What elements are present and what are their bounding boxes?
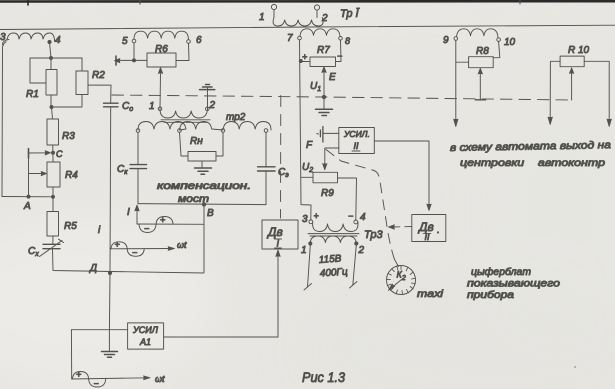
amplifier output wire [164, 251, 278, 338]
node dot on dashed line [322, 95, 325, 98]
sine1 negative half [139, 224, 156, 233]
wire pin4 down to node [50, 42, 52, 58]
svg-text:Дв: Дв [266, 225, 283, 239]
svg-text:3: 3 [302, 214, 308, 225]
R8 wiper wire [479, 72, 481, 100]
arrowhead down into R9 [323, 164, 327, 170]
top border line [0, 0, 615, 3]
Tp2 secondary tap circle [221, 129, 225, 133]
ground symbol inverted above Tp2 pin2 [200, 85, 215, 90]
R10 wiper wire [571, 72, 573, 101]
wire R5 to Cx [52, 236, 54, 244]
junction dot R7 plus [299, 60, 302, 63]
svg-text:C: C [56, 149, 63, 159]
svg-text:мост: мост [178, 194, 209, 205]
wire left bridge arm lower [137, 169, 139, 204]
amplifier box USIL A1 [128, 323, 164, 349]
svg-text:−: − [348, 211, 353, 221]
sine1 axis [137, 223, 204, 225]
capacitor Ce plates [258, 167, 276, 171]
wire to R2 top [81, 58, 83, 71]
transformer Tp2 secondary coil [138, 122, 271, 131]
dashed link DV II with arrow [392, 226, 412, 229]
wire from box to R9 wiper [325, 148, 339, 169]
meter Kd circle [387, 266, 416, 295]
svg-text:УСИЛ.: УСИЛ. [343, 129, 370, 139]
bar under II [423, 233, 431, 235]
wire tap vertical [28, 153, 30, 197]
transformer Tp2 primary coil [160, 109, 208, 118]
winding 9-10 terminal circle 10 [497, 38, 501, 42]
Tp2 core lines [161, 120, 210, 123]
dashed mechanical link diagonal [326, 150, 395, 260]
transformer Tp3 upper coil [313, 222, 358, 232]
potentiometer R9 [313, 172, 338, 183]
arrowhead R8 wiper up [478, 68, 482, 74]
svg-text:maxi: maxi [417, 289, 444, 300]
svg-text:А: А [23, 201, 31, 212]
ground U1 [316, 109, 333, 115]
transformer Tp3 lower coil [310, 236, 356, 244]
capacitor Ck plates [130, 165, 147, 169]
svg-text:компенсацион.: компенсацион. [157, 181, 251, 192]
wire R9 right down to pin 4 [338, 178, 357, 220]
winding 7-8 terminal circle 8 [339, 37, 343, 41]
potentiometer R6 [147, 53, 176, 67]
solid tail into meter [395, 260, 399, 267]
wire R4 bottom through A to R5 [52, 187, 54, 212]
Tp3 terminal circle 4 [354, 220, 358, 224]
svg-text:А1: А1 [139, 337, 151, 347]
svg-text:4: 4 [55, 35, 61, 46]
svg-text:I: I [127, 207, 130, 218]
motor box DV I [262, 220, 298, 249]
svg-text:Е: Е [329, 72, 336, 83]
Tp3 lower terminal dot 2 [355, 242, 358, 245]
wire B down [203, 204, 205, 272]
svg-text:R5: R5 [64, 221, 77, 232]
ground at amplifier [102, 352, 118, 358]
wire tap to RH right [216, 132, 223, 156]
wire C tap with arrow [29, 152, 50, 154]
wire pin5 down [133, 43, 135, 61]
svg-text:10: 10 [504, 37, 516, 48]
wire bottom join [51, 95, 82, 108]
potentiometer R7 [310, 57, 336, 67]
wire down to R3 [52, 107, 53, 119]
wire tap to RH left [180, 132, 189, 156]
capacitor F tick [317, 133, 318, 136]
amplifier box USIL II [339, 128, 375, 154]
tick on border [139, 0, 141, 4]
svg-text:R1: R1 [26, 89, 39, 100]
needle arrowhead [388, 284, 395, 291]
svg-text:В: В [207, 208, 214, 219]
main dashed line [112, 95, 572, 100]
svg-text:+: + [160, 215, 165, 225]
sine1 positive half [156, 217, 173, 225]
wire left down to sine3 [70, 330, 72, 379]
sine2 negative half [127, 249, 144, 257]
svg-text:R3: R3 [62, 131, 75, 142]
svg-text:7: 7 [287, 33, 293, 44]
arrowhead R7 wiper up [322, 67, 326, 73]
svg-text:1: 1 [301, 245, 307, 256]
svg-text:6: 6 [196, 35, 202, 46]
svg-text:R4: R4 [65, 170, 78, 181]
wire left bridge arm upper [137, 132, 139, 164]
svg-text:2: 2 [209, 100, 216, 111]
svg-text:R 10: R 10 [568, 45, 590, 56]
underline II [352, 150, 360, 152]
amplifier input wire [71, 329, 127, 331]
transformer Tp1 primary terminal 2 [314, 5, 319, 10]
svg-text:−: − [144, 224, 149, 234]
svg-text:показывающего: показывающего [467, 279, 561, 290]
node A dot right [52, 195, 55, 198]
sine2 positive half [111, 242, 127, 249]
svg-text:R9: R9 [321, 188, 334, 199]
ground stem U1 [323, 97, 325, 109]
sine3 arrowhead [144, 376, 151, 380]
svg-text:УСИЛ: УСИЛ [132, 325, 159, 335]
R8 wiper bottom tick [475, 99, 485, 101]
winding 3-4 terminal dot [48, 40, 51, 43]
svg-text:−: − [132, 248, 137, 258]
svg-text:+: + [76, 370, 81, 380]
wire node horizontal [30, 57, 82, 59]
sine2 arrowhead [168, 247, 175, 251]
arrowhead down R10 left [548, 117, 552, 125]
wire R1 bottom [50, 95, 52, 107]
resistor R3 [47, 119, 59, 145]
bridge bottom wire [138, 204, 266, 205]
svg-text:Rн: Rн [190, 136, 203, 147]
svg-text:цыферблат: цыферблат [471, 266, 531, 278]
main vertical from pin 7 [300, 40, 312, 220]
transformer Tp1 primary coil [273, 18, 323, 27]
svg-text:R8: R8 [476, 46, 489, 57]
main horizontal bus line [0, 25, 615, 29]
terminal bar with arrow [115, 56, 117, 65]
arrowhead to C [45, 151, 51, 155]
arrowhead I up [135, 205, 139, 211]
node dot D [108, 271, 111, 274]
arrowhead down R10 right [607, 119, 611, 127]
svg-text:прибора: прибора [467, 289, 515, 301]
svg-text:R7: R7 [317, 45, 330, 56]
svg-text:F: F [306, 140, 313, 151]
wire R2 tap to Co [88, 85, 111, 95]
capacitor Cx variable arrow [40, 239, 64, 256]
Tp2 secondary tap circle [178, 129, 182, 133]
wire R8 left stub [456, 61, 469, 63]
svg-text:9: 9 [443, 35, 449, 46]
paper speck [574, 366, 576, 368]
winding 3-4 coil [7, 33, 55, 42]
wire R9 left [301, 176, 313, 178]
winding 3-4 terminal curl [2, 40, 9, 46]
node A dot left [27, 195, 30, 198]
wire R6 left to terminal bar [117, 59, 147, 61]
wire [316, 10, 318, 17]
resistor R2 [76, 71, 88, 95]
svg-text:8: 8 [345, 36, 350, 46]
svg-text:.: . [437, 225, 440, 236]
capacitor F plates [320, 127, 323, 143]
bar over I [275, 239, 282, 248]
svg-text:Д: Д [89, 263, 97, 274]
svg-text:1: 1 [259, 12, 265, 23]
sine2 axis with arrow [110, 248, 173, 250]
amplifier II output wire [374, 141, 429, 210]
winding 5-6 terminal circle 5 [132, 39, 136, 43]
capacitor Cx plates [43, 244, 60, 248]
svg-text:Тр Ī: Тр Ī [340, 8, 361, 20]
wire R10 right with arrow [584, 61, 609, 119]
node dot R1 bottom [50, 106, 53, 109]
wire R1 wiper loop [30, 58, 46, 83]
Tp3 core lines [308, 234, 359, 236]
potentiometer R8 [469, 57, 494, 68]
svg-text:Рис 1.3: Рис 1.3 [302, 369, 345, 385]
sine3 positive half [73, 372, 89, 380]
ground stem at amplifier [108, 330, 110, 351]
Tp2 primary terminal circle 2 [206, 107, 210, 111]
arrowhead R10 wiper up [569, 68, 573, 74]
potentiometer R10 [560, 56, 584, 67]
supply wire right with slash [353, 245, 357, 285]
svg-text:3: 3 [0, 32, 6, 43]
svg-text:+: + [115, 240, 120, 250]
slash right [350, 282, 358, 289]
wire left edge from pin 3 down [2, 42, 6, 197]
svg-text:+: + [302, 52, 307, 62]
resistor R4 [47, 162, 60, 187]
wire [273, 10, 275, 18]
winding 9-10 coil [457, 29, 498, 37]
Tp2 primary terminal circle 1 [158, 107, 162, 111]
wire main left vertical below Co [109, 107, 112, 273]
arrowhead down R8 left [454, 119, 458, 127]
wire R6 wiper down to Tp2 [159, 74, 162, 109]
svg-text:R2: R2 [92, 70, 105, 81]
wire to R1 top [50, 58, 52, 70]
svg-text:ωt: ωt [155, 374, 165, 384]
motor box DV II [412, 215, 446, 242]
wire pin6 down to R6 right [176, 43, 189, 60]
resistor R1 [46, 70, 57, 96]
svg-text:+: + [314, 211, 319, 221]
R7 wiper wire [323, 71, 325, 97]
ground below RH [195, 168, 212, 174]
winding 7-8 coil [300, 29, 340, 37]
wire pin10 down to R8 right [493, 41, 500, 57]
ground stem below RH [201, 161, 203, 168]
wire vertical to amplifier [108, 273, 111, 330]
winding 5-6 coil [134, 31, 188, 40]
meter ticks [387, 266, 416, 295]
sine3 negative half [89, 379, 106, 387]
svg-text:ωt: ωt [177, 240, 187, 250]
supply wire left with slash [308, 245, 311, 287]
wire pin9 down long with arrow [455, 40, 457, 119]
Tp3 lower terminal dot 1 [309, 242, 312, 245]
wire Co top stub [110, 95, 112, 103]
wire R3 to node C [52, 145, 54, 162]
svg-text:115В: 115В [318, 253, 342, 266]
node dot B [202, 203, 205, 206]
node dot R1 top [50, 57, 53, 60]
svg-text:4: 4 [360, 212, 366, 223]
arrowhead R6 wiper [158, 68, 162, 74]
wiper tap bar at C [28, 149, 30, 159]
dashed vertical to DV I [280, 96, 282, 219]
wire R7 left stub [301, 61, 310, 63]
svg-text:центровки автоконтр: центровки автоконтр [460, 157, 605, 169]
ground stem [207, 88, 209, 109]
tick on border [519, 0, 521, 4]
svg-text:−: − [337, 51, 342, 61]
winding 5-6 terminal circle 6 [187, 40, 191, 44]
svg-text:2: 2 [358, 245, 365, 256]
arrowhead into DV I [276, 250, 280, 257]
arrowhead into DV II [427, 204, 431, 211]
svg-text:II: II [354, 141, 360, 151]
tick on border [27, 0, 29, 5]
Tp2 secondary terminal circle left [136, 129, 140, 133]
capacitor F wire right [323, 132, 339, 134]
capacitor Co plates [104, 103, 119, 107]
arrowhead left terminal [115, 59, 121, 63]
svg-text:−: − [94, 379, 99, 389]
svg-text:2: 2 [321, 13, 328, 24]
Tp2 secondary terminal circle right [264, 129, 268, 133]
wire Cx down and bottom run [53, 249, 204, 273]
wire node A horizontal [2, 196, 53, 198]
wire R4 wiper arrow [29, 173, 44, 175]
svg-text:400Гц: 400Гц [319, 267, 348, 280]
wire R10 left with arrow [550, 61, 560, 117]
svg-text:Тр3: Тр3 [364, 229, 383, 241]
svg-text:5: 5 [122, 36, 128, 47]
node C dot [52, 151, 55, 154]
winding 7-8 terminal circle 7 [298, 36, 302, 40]
Tp3 terminal circle 3 [309, 220, 313, 224]
resistor RH [188, 152, 216, 162]
sine3 axis with arrow [72, 378, 148, 379]
transformer Tp1 primary terminal 1 [271, 4, 276, 9]
meter needle [390, 280, 402, 290]
arrowhead link left [389, 225, 395, 229]
svg-text:1: 1 [149, 101, 155, 112]
arrowhead into R4 [41, 171, 47, 175]
wire right bridge arm upper [265, 132, 267, 166]
winding 9-10 terminal circle 9 [454, 37, 458, 41]
slash left [304, 284, 312, 291]
wire pin8 to R7 right [336, 40, 342, 61]
wire right bridge arm lower [265, 171, 267, 205]
current arrow I [136, 207, 138, 225]
resistor R5 [47, 212, 59, 237]
node dot [133, 59, 136, 62]
